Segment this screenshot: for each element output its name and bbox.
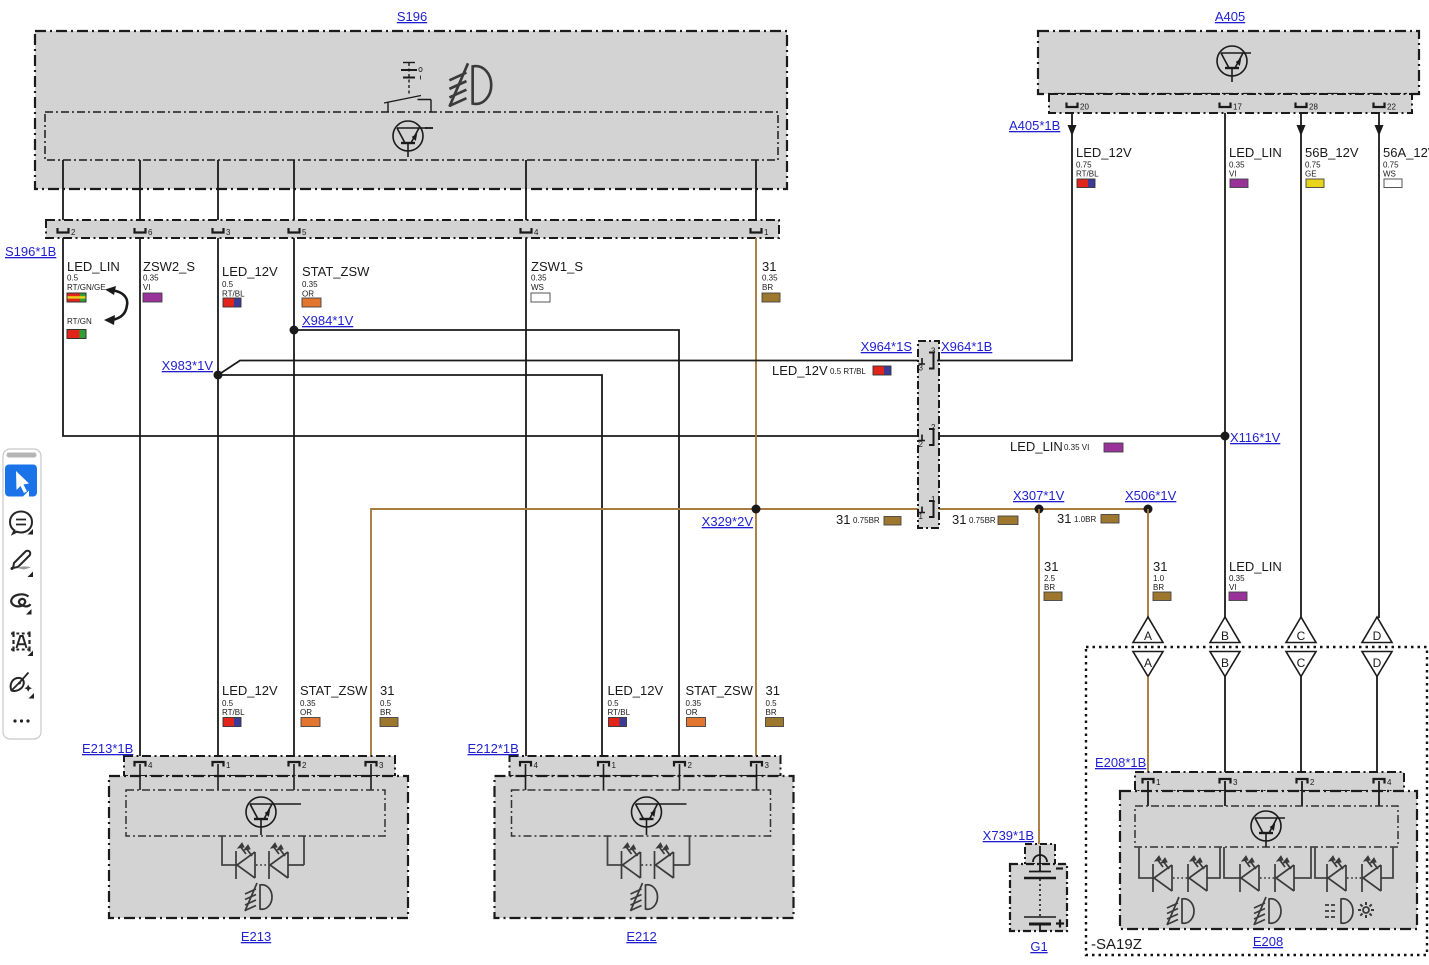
svg-text:OR: OR — [302, 290, 314, 299]
svg-text:LED_12V: LED_12V — [772, 363, 828, 378]
S196 inner module box — [45, 112, 778, 160]
connector E212*1B strip — [510, 756, 781, 776]
fog lamp icon in E212 — [631, 883, 658, 911]
svg-text:31: 31 — [1153, 559, 1167, 574]
wire S196 internal x=294 — [293, 160, 295, 221]
wire 56A A405 pin22 to triangle D — [1378, 113, 1380, 618]
wire triangle C to E208 pin2 — [1300, 677, 1302, 784]
svg-text:31: 31 — [380, 683, 394, 698]
svg-text:ZSW1_S: ZSW1_S — [531, 259, 583, 274]
pin 20 of A405*1B — [1067, 103, 1078, 108]
wire LED_12V S196 pin3 to E213 pin1 — [217, 238, 219, 764]
pin 2 of X964 — [919, 429, 934, 445]
svg-text:LED_12V: LED_12V — [608, 683, 664, 698]
toolbar signature pen tool — [11, 673, 32, 692]
LED 1 in E213 — [236, 843, 255, 879]
fog lamp icon in E213 — [245, 883, 272, 911]
svg-text:X983*1V: X983*1V — [162, 358, 214, 373]
svg-text:3: 3 — [765, 761, 770, 770]
pin 6 of S196*1B — [135, 228, 146, 233]
svg-text:LED_LIN: LED_LIN — [1010, 439, 1063, 454]
switch symbol in S196 — [384, 63, 431, 113]
svg-text:A: A — [1144, 656, 1152, 670]
svg-text:0.5: 0.5 — [67, 274, 79, 283]
battery G1 internals — [1024, 846, 1056, 931]
svg-text:2: 2 — [302, 761, 307, 770]
node X506*1V — [1144, 505, 1153, 514]
svg-text:ZSW2_S: ZSW2_S — [143, 259, 195, 274]
svg-text:4: 4 — [534, 228, 539, 237]
svg-text:31: 31 — [766, 683, 780, 698]
LED 2 in E213 — [269, 843, 288, 879]
wires E213 pins into module — [140, 764, 371, 790]
footwell module A405 box — [1038, 31, 1419, 94]
svg-text:X964*1S: X964*1S — [861, 339, 913, 354]
svg-text:E213*1B: E213*1B — [82, 741, 133, 756]
svg-text:RT/GN: RT/GN — [67, 317, 92, 326]
svg-text:RT/BL: RT/BL — [222, 290, 245, 299]
svg-text:20: 20 — [1080, 103, 1089, 112]
pin 17 of A405*1B — [1220, 103, 1231, 108]
LED 1 in E212 — [622, 843, 641, 879]
wire 31 X506 down to triangle A (brown) — [1147, 509, 1149, 618]
pin 3 of X964 — [919, 353, 934, 369]
svg-text:BR: BR — [1153, 583, 1164, 592]
connector triangle A (up) — [1133, 617, 1163, 643]
svg-text:X964*1B: X964*1B — [941, 339, 992, 354]
svg-text:0.5 RT/BL: 0.5 RT/BL — [830, 367, 866, 376]
LED bracket wires in E208 — [1139, 847, 1393, 878]
svg-text:0.75: 0.75 — [1305, 161, 1321, 170]
pin 1 of S196*1B — [751, 228, 762, 233]
svg-text:4: 4 — [148, 761, 153, 770]
wire triangle B to E208 pin3 — [1224, 677, 1226, 784]
svg-text:0.5: 0.5 — [608, 699, 620, 708]
pin 1 of E208*1B — [1143, 779, 1154, 784]
svg-text:OR: OR — [300, 708, 312, 717]
svg-text:S196*1B: S196*1B — [5, 244, 56, 259]
svg-text:31: 31 — [952, 512, 966, 527]
transistor symbol in E212 — [632, 797, 687, 835]
svg-text:0.35: 0.35 — [300, 699, 316, 708]
svg-text:BR: BR — [1044, 583, 1055, 592]
toolbar select tool (active) — [5, 465, 37, 497]
wire LED_12V A405 pin20 to X964 pin3 — [937, 113, 1072, 361]
pin 3 of S196*1B — [213, 228, 224, 233]
svg-text:0.35: 0.35 — [762, 274, 778, 283]
svg-text:LED_LIN: LED_LIN — [1229, 145, 1282, 160]
svg-text:X307*1V: X307*1V — [1013, 488, 1065, 503]
svg-text:X739*1B: X739*1B — [983, 828, 1034, 843]
svg-text:A405*1B: A405*1B — [1009, 118, 1060, 133]
svg-text:0.35: 0.35 — [531, 274, 547, 283]
svg-text:5: 5 — [302, 228, 307, 237]
svg-text:LED_LIN: LED_LIN — [1229, 559, 1282, 574]
pin 1 of E213*1B — [213, 762, 224, 767]
pin 2 of E213*1B — [289, 762, 300, 767]
node X983*1V — [214, 371, 223, 380]
svg-text:0.35: 0.35 — [686, 699, 702, 708]
svg-text:31: 31 — [836, 512, 850, 527]
svg-text:E212: E212 — [626, 929, 656, 944]
svg-text:B: B — [1221, 656, 1229, 670]
svg-text:1: 1 — [931, 495, 936, 504]
svg-text:0.35: 0.35 — [1229, 574, 1245, 583]
LED 1 in E208 — [1153, 856, 1172, 892]
pin 3 of E208*1B — [1220, 779, 1231, 784]
svg-text:0.75: 0.75 — [1383, 161, 1399, 170]
svg-text:STAT_ZSW: STAT_ZSW — [302, 264, 370, 279]
svg-text:0.75BR: 0.75BR — [853, 516, 880, 525]
toolbar comment tool — [10, 512, 32, 534]
connector triangle B (down) — [1210, 652, 1240, 677]
svg-text:STAT_ZSW: STAT_ZSW — [300, 683, 368, 698]
svg-text:2: 2 — [71, 228, 76, 237]
svg-text:RT/BL: RT/BL — [608, 708, 631, 717]
wires E212 pins into module — [526, 764, 757, 790]
svg-text:1.0: 1.0 — [1153, 574, 1165, 583]
svg-text:E208: E208 — [1253, 934, 1283, 949]
svg-text:X329*2V: X329*2V — [702, 514, 754, 529]
toolbar text-select tool — [11, 632, 31, 652]
svg-text:28: 28 — [1309, 103, 1318, 112]
svg-text:3: 3 — [931, 347, 936, 356]
wire triangle D to E208 pin4 — [1376, 677, 1378, 784]
toolbar pen tool — [11, 551, 32, 570]
wire S196 internal x=63 — [62, 160, 64, 221]
pin 1 of X964 — [919, 501, 934, 517]
lamp unit E208 box — [1120, 791, 1417, 929]
wire LED_LIN A405 pin17 to triangle B — [1224, 113, 1226, 618]
pin 22 of A405*1B — [1374, 103, 1385, 108]
rear fog icon in E208 — [1325, 899, 1353, 923]
svg-text:E212*1B: E212*1B — [468, 741, 519, 756]
E212 inner module box — [512, 790, 771, 836]
LED 6 in E208 — [1362, 856, 1381, 892]
svg-text:C: C — [1297, 656, 1306, 670]
wire branch X983 to X964 pin3 — [218, 361, 921, 376]
svg-text:X984*1V: X984*1V — [302, 313, 354, 328]
fog lamp icon 2 in E208 — [1254, 897, 1281, 925]
svg-text:6: 6 — [148, 228, 153, 237]
svg-text:0.35: 0.35 — [143, 274, 159, 283]
wire 31 brown bus E213 pin3 to X506 — [371, 509, 1148, 764]
pin 1 of E212*1B — [598, 762, 609, 767]
pin 2 of E208*1B — [1297, 779, 1308, 784]
svg-text:22: 22 — [1387, 103, 1396, 112]
svg-text:D: D — [1373, 656, 1382, 670]
toolbar panel — [3, 449, 41, 739]
pin 4 of E212*1B — [520, 762, 531, 767]
pin 4 of E208*1B — [1374, 779, 1385, 784]
svg-text:2: 2 — [688, 761, 693, 770]
node X329*2V — [752, 505, 761, 514]
svg-text:RT/BL: RT/BL — [1076, 170, 1099, 179]
node X307*1V — [1035, 505, 1044, 514]
lamp unit E212 box — [495, 776, 794, 918]
svg-text:17: 17 — [1233, 103, 1242, 112]
connector E213*1B strip — [124, 756, 395, 776]
svg-text:LED_LIN: LED_LIN — [67, 259, 120, 274]
node X984*1V — [290, 326, 299, 335]
wire ZSW1_S S196 pin4 to E212 pin4 — [525, 238, 527, 764]
svg-text:1: 1 — [764, 228, 769, 237]
transistor symbol U-A405 — [1217, 46, 1251, 82]
svg-text:4: 4 — [1387, 778, 1392, 787]
svg-text:2: 2 — [931, 423, 936, 432]
svg-text:RT/BL: RT/BL — [222, 708, 245, 717]
option boundary -SA19Z — [1086, 647, 1427, 955]
connector E208*1B strip — [1135, 772, 1404, 791]
wire STAT_ZSW S196 pin5 to E213 pin2 — [293, 238, 295, 764]
wire S196 internal x=756 — [755, 160, 757, 221]
svg-text:G1: G1 — [1030, 939, 1047, 954]
svg-text:WS: WS — [1383, 170, 1396, 179]
svg-text:1: 1 — [919, 512, 924, 521]
LED bracket wires in E212 — [608, 836, 623, 865]
connector S196*1B strip — [46, 220, 779, 238]
svg-text:1: 1 — [612, 761, 617, 770]
svg-text:3: 3 — [226, 228, 231, 237]
svg-text:1: 1 — [226, 761, 231, 770]
connector triangle D (up) — [1362, 617, 1392, 643]
wire LED_LIN S196 pin2 down and right to X116*1V — [63, 238, 1225, 436]
svg-text:0.75: 0.75 — [1076, 161, 1092, 170]
svg-text:56A_12V: 56A_12V — [1383, 145, 1429, 160]
svg-text:2.5: 2.5 — [1044, 574, 1056, 583]
svg-text:BR: BR — [762, 283, 773, 292]
svg-text:56B_12V: 56B_12V — [1305, 145, 1359, 160]
svg-text:LED_12V: LED_12V — [1076, 145, 1132, 160]
wire S196 internal x=140 — [139, 160, 141, 221]
svg-text:B: B — [1221, 629, 1229, 643]
svg-text:31: 31 — [1044, 559, 1058, 574]
svg-text:0.5: 0.5 — [222, 280, 234, 289]
svg-text:E208*1B: E208*1B — [1095, 755, 1146, 770]
svg-text:3: 3 — [1233, 778, 1238, 787]
connector triangle C (up) — [1286, 617, 1316, 643]
pin 4 of E213*1B — [135, 762, 146, 767]
svg-text:0.35: 0.35 — [1229, 161, 1245, 170]
connector triangle D (down) — [1362, 652, 1392, 677]
pin 28 of A405*1B — [1296, 103, 1307, 108]
svg-text:2: 2 — [919, 440, 924, 449]
svg-text:X116*1V: X116*1V — [1230, 430, 1281, 445]
connector X964 strip — [918, 341, 939, 528]
connector triangle B (up) — [1210, 617, 1240, 643]
connector triangle A (down) — [1133, 652, 1163, 677]
connector A405*1B strip — [1049, 94, 1412, 113]
wires E208 pins into module — [1148, 781, 1379, 806]
svg-text:1.0BR: 1.0BR — [1074, 515, 1096, 524]
svg-text:31: 31 — [1057, 511, 1071, 526]
svg-text:0.35: 0.35 — [302, 280, 318, 289]
LED 5 in E208 — [1327, 856, 1346, 892]
svg-text:BR: BR — [766, 708, 777, 717]
wire 56B A405 pin28 to triangle C — [1300, 113, 1302, 618]
LED 2 in E208 — [1188, 856, 1207, 892]
pin 3 of E212*1B — [751, 762, 762, 767]
headlight icon in S196 — [449, 63, 491, 106]
svg-text:X506*1V: X506*1V — [1125, 488, 1177, 503]
svg-text:0.5: 0.5 — [222, 699, 234, 708]
transistor symbol in E208 — [1251, 811, 1285, 847]
svg-text:S196: S196 — [397, 9, 427, 24]
transistor symbol in E213 — [246, 797, 301, 835]
battery G1 box — [1010, 864, 1067, 931]
svg-text:0.35 VI: 0.35 VI — [1064, 443, 1089, 452]
svg-text:VI: VI — [143, 283, 151, 292]
LED bracket wires in E213 — [222, 836, 237, 865]
svg-text:0.5: 0.5 — [380, 699, 392, 708]
wire 31 X307 down to G1 (brown) — [1038, 509, 1040, 852]
svg-text:GE: GE — [1305, 170, 1317, 179]
connector X739*1B box — [1025, 844, 1055, 864]
svg-text:3: 3 — [379, 761, 384, 770]
transistor symbol U-S196 — [393, 121, 427, 157]
fog lamp icon 1 in E208 — [1167, 897, 1194, 925]
svg-text:D: D — [1373, 629, 1382, 643]
wire S196 internal x=218 — [217, 160, 219, 221]
E208 inner module box — [1135, 806, 1398, 847]
pin 2 of E212*1B — [674, 762, 685, 767]
LED 2 in E212 — [655, 843, 674, 879]
side light icon in E208 — [1358, 902, 1374, 918]
wire S196 internal x=526 — [525, 160, 527, 221]
toolbar more options — [13, 719, 16, 722]
svg-text:0.75BR: 0.75BR — [969, 516, 996, 525]
connector triangle C (down) — [1286, 652, 1316, 677]
switch unit S196 box — [35, 31, 787, 189]
svg-text:3: 3 — [919, 364, 924, 373]
svg-text:RT/GN/GE: RT/GN/GE — [67, 283, 106, 292]
LED 4 in E208 — [1275, 856, 1294, 892]
svg-text:STAT_ZSW: STAT_ZSW — [686, 683, 754, 698]
wire 31 S196 pin1 to E212 pin3 (brown) — [755, 238, 757, 764]
pin 4 of S196*1B — [521, 228, 532, 233]
svg-text:BR: BR — [380, 708, 391, 717]
E213 inner module box — [126, 790, 385, 836]
svg-text:VI: VI — [1229, 583, 1237, 592]
svg-text:LED_12V: LED_12V — [222, 264, 278, 279]
svg-text:OR: OR — [686, 708, 698, 717]
color change arrow — [111, 290, 127, 320]
svg-text:VI: VI — [1229, 170, 1237, 179]
wire branch X984 to E212 pin2 — [294, 330, 679, 764]
svg-text:C: C — [1297, 629, 1306, 643]
svg-text:LED_12V: LED_12V — [222, 683, 278, 698]
svg-text:A: A — [1144, 629, 1152, 643]
svg-text:E213: E213 — [241, 929, 271, 944]
svg-text:2: 2 — [1310, 778, 1315, 787]
wire triangle A to E208 pin1 (brown) — [1147, 677, 1149, 784]
node X116*1V — [1221, 432, 1230, 441]
svg-text:31: 31 — [762, 259, 776, 274]
svg-text:1: 1 — [1156, 778, 1161, 787]
LED 3 in E208 — [1240, 856, 1259, 892]
svg-text:-SA19Z: -SA19Z — [1091, 936, 1142, 953]
svg-text:4: 4 — [534, 761, 539, 770]
pin 5 of S196*1B — [289, 228, 300, 233]
svg-text:A405: A405 — [1215, 9, 1245, 24]
wire branch X983 to E212 pin1 — [218, 375, 602, 764]
pin 3 of E213*1B — [366, 762, 377, 767]
svg-text:0.5: 0.5 — [766, 699, 778, 708]
wire ZSW2_S S196 pin6 to E213 pin4 — [139, 238, 141, 764]
toolbar freehand highlight tool — [11, 594, 30, 606]
svg-text:WS: WS — [531, 283, 544, 292]
pin 2 of S196*1B — [58, 228, 69, 233]
lamp unit E213 box — [109, 776, 408, 918]
